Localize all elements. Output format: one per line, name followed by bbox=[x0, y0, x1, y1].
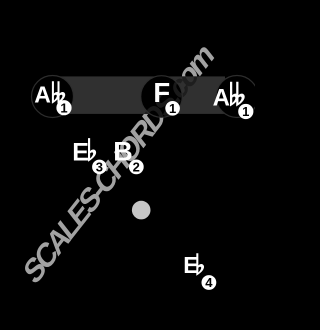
note circle Abb right bbox=[216, 76, 258, 118]
svg-text:B: B bbox=[113, 136, 133, 166]
note circle F bbox=[141, 76, 183, 118]
svg-text:1: 1 bbox=[169, 101, 176, 116]
watermark dark copy over bar bbox=[18, 36, 219, 292]
badge 1 right bbox=[238, 104, 253, 119]
svg-text:3: 3 bbox=[96, 160, 103, 175]
svg-text:A: A bbox=[213, 84, 230, 111]
fret marker dot bbox=[132, 201, 151, 220]
badge 1 F bbox=[165, 101, 180, 116]
badge 4 bbox=[202, 275, 217, 290]
svg-text:4: 4 bbox=[205, 275, 213, 290]
svg-text:1: 1 bbox=[60, 100, 67, 115]
svg-text:A: A bbox=[34, 81, 51, 107]
faint watermark traces inside circles bbox=[18, 36, 219, 292]
note circle Abb left bbox=[32, 76, 74, 118]
fretboard bar bbox=[54, 76, 225, 114]
badge 3 bbox=[92, 160, 107, 175]
svg-text:2: 2 bbox=[133, 160, 140, 175]
svg-text:1: 1 bbox=[242, 104, 249, 119]
badge 2 bbox=[129, 160, 144, 175]
watermark SCALES-CHORDS.com bbox=[18, 36, 219, 292]
svg-text:E: E bbox=[72, 138, 89, 166]
badge 1 left bbox=[56, 100, 71, 115]
